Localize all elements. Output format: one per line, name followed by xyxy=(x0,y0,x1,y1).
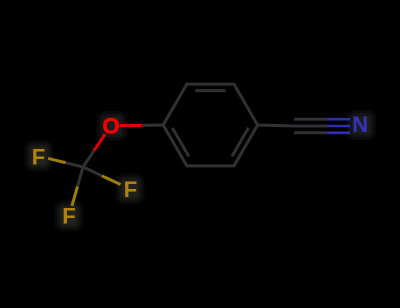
svg-text:F: F xyxy=(62,204,75,229)
svg-text:N: N xyxy=(352,112,368,137)
svg-text:O: O xyxy=(103,113,120,138)
svg-text:F: F xyxy=(32,144,45,169)
svg-text:F: F xyxy=(124,177,137,202)
